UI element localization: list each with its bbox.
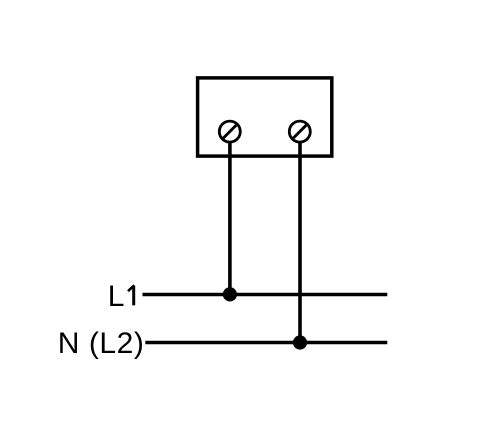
svg-text:L: L (108, 280, 125, 313)
svg-text:N (L2): N (L2) (58, 327, 145, 360)
